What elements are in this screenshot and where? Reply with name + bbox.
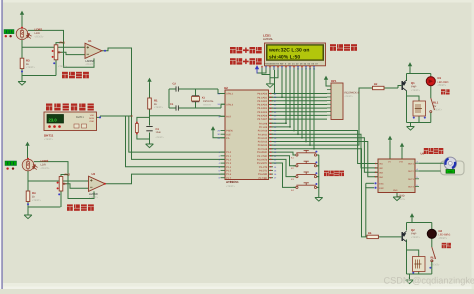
svg-text:23.0: 23.0 xyxy=(49,117,58,122)
wire Q1 collector to relay rail xyxy=(406,91,408,123)
pin P3.2/INT0 xyxy=(269,158,274,160)
ground buttons xyxy=(315,198,323,202)
wire LCD D0 vertical to P2.0 xyxy=(285,70,287,123)
svg-text:P3.2/INT0: P3.2/INT0 xyxy=(257,159,268,162)
wire LCD VEE to ground node xyxy=(269,70,271,83)
wire driver EN1 tie xyxy=(366,182,374,184)
wire LCD D4 vertical to P2.4 xyxy=(301,70,303,138)
label dorm motor xyxy=(424,148,444,154)
probe indoor light level xyxy=(5,161,17,166)
wire RP1 pin1 to VCC xyxy=(326,81,331,86)
svg-text:P3.1/TXD: P3.1/TXD xyxy=(257,155,267,158)
svg-text:P0.2/AD2: P0.2/AD2 xyxy=(257,100,268,103)
svg-text:P3.6/WR: P3.6/WR xyxy=(258,173,268,176)
svg-text:U3: U3 xyxy=(92,172,96,176)
svg-text:wen:32C L:30 on: wen:32C L:30 on xyxy=(268,48,309,54)
wire R1 to RST node xyxy=(149,109,151,117)
svg-text:LDR2: LDR2 xyxy=(41,159,49,163)
wire MCU P2.7 to Q2 base resistor R5 xyxy=(269,149,367,237)
svg-text:C2: C2 xyxy=(173,83,177,86)
wire D1 to relay switch xyxy=(430,74,432,77)
wire Q2 collector to relay rail xyxy=(406,240,408,275)
svg-text:P3.5/T1: P3.5/T1 xyxy=(259,170,268,173)
relay RL1 xyxy=(413,101,426,116)
wire RV2 aux down branch xyxy=(68,175,94,199)
LCD pins xyxy=(261,66,263,70)
svg-text:<TEXT>: <TEXT> xyxy=(431,263,441,266)
pin P1.4 xyxy=(221,166,226,168)
wire LDR2 top loop to RV2 xyxy=(34,162,68,177)
pin P3.1/TXD xyxy=(269,155,274,157)
wire R3 to ground xyxy=(21,69,23,82)
capacitor C3 xyxy=(146,127,152,131)
svg-text:P2.6/A14: P2.6/A14 xyxy=(258,144,268,147)
wire MCU P0.4 row to RP1 xyxy=(269,107,328,109)
relay RL2 xyxy=(413,257,426,272)
label temperature threshold xyxy=(230,47,262,53)
wire MCU P3.1 to button K2 xyxy=(269,156,296,166)
svg-text:LM016L: LM016L xyxy=(263,37,274,41)
power +5V indoor xyxy=(25,142,29,150)
pin P0.5/AD5 xyxy=(269,111,274,113)
svg-text:LDR1: LDR1 xyxy=(35,28,43,32)
resistor R2 xyxy=(373,86,385,89)
svg-text:EA: EA xyxy=(226,137,230,140)
wire MCU P2 rows to driver IN1 xyxy=(269,131,379,164)
button K4 xyxy=(293,186,296,188)
svg-text:AT89C51: AT89C51 xyxy=(226,180,239,184)
relay RL2 switch blade xyxy=(432,247,436,259)
wire LCD D6 vertical to P2.6 xyxy=(309,70,311,145)
wire MCU P2.0 stub to LCD data xyxy=(269,122,287,124)
wire MCU P2 row to driver IN3 xyxy=(269,138,379,173)
wire MCU P0.0 row to RP1 xyxy=(269,93,328,95)
pin P3.5/T1 xyxy=(269,169,274,171)
power +5V driver VSS xyxy=(400,143,404,151)
motor dorm fan xyxy=(444,157,456,169)
ground lamp xyxy=(406,280,414,284)
pin XTAL1 xyxy=(221,93,226,95)
svg-text:PNP: PNP xyxy=(411,233,417,236)
svg-text:OUT4: OUT4 xyxy=(408,186,415,189)
svg-text:<TEXT>: <TEXT> xyxy=(86,63,96,66)
svg-text:<TEXT>: <TEXT> xyxy=(433,108,443,111)
svg-text:P1.4: P1.4 xyxy=(226,166,231,169)
svg-text:P2.0/A8: P2.0/A8 xyxy=(259,122,268,125)
capacitor C1 xyxy=(176,105,178,110)
svg-text:P3.3/INT1: P3.3/INT1 xyxy=(257,162,268,165)
wire LCD RW to ground node xyxy=(270,70,278,78)
wire MCU P0.6 row to RP1 xyxy=(269,114,328,116)
ground reset xyxy=(146,144,154,148)
resistor pack RP1 xyxy=(324,76,328,84)
pin P1.6 xyxy=(221,173,226,175)
svg-text:XTAL2: XTAL2 xyxy=(226,103,234,106)
wire RST node to C3 xyxy=(149,117,151,125)
pin RST xyxy=(221,115,226,117)
wire LCD E to MCU P0.1 xyxy=(281,70,283,97)
svg-text:<TEXT>: <TEXT> xyxy=(35,36,45,39)
svg-text:R4: R4 xyxy=(32,191,36,195)
wire LCD VSS to ground node xyxy=(262,70,270,75)
pin P2.2/A10 xyxy=(269,130,274,132)
svg-text:CSDN @cqdianzingkeji: CSDN @cqdianzingkeji xyxy=(384,276,474,286)
svg-text:P1.0: P1.0 xyxy=(226,151,231,154)
wire MCU P0.3 row to RP1 xyxy=(269,104,328,106)
label adjust keys xyxy=(324,171,344,177)
wire MCU P0.2 row to RP1 xyxy=(269,100,328,102)
resistor R5 xyxy=(367,235,379,238)
svg-text:P0.3/AD3: P0.3/AD3 xyxy=(257,104,268,107)
svg-text:P1.1: P1.1 xyxy=(226,155,231,158)
wire RV1 wiper to op-amp U1 -input xyxy=(58,52,85,54)
wire buttons common to ground xyxy=(317,154,319,156)
svg-text:R5: R5 xyxy=(368,232,372,235)
svg-text:Q2: Q2 xyxy=(411,228,415,232)
wire MCU P0.1 row to RP1 xyxy=(269,96,328,98)
resistor R3 xyxy=(20,58,24,68)
button K1 xyxy=(293,154,296,156)
LED D2 xyxy=(427,229,436,238)
wire Q1 emitter xyxy=(406,79,408,81)
pin P2.1/A9 xyxy=(269,126,274,128)
wire divider node to op-amp U1 +input xyxy=(22,46,85,48)
transistor Q2 xyxy=(401,232,403,241)
svg-text:<TEXT>: <TEXT> xyxy=(226,185,236,188)
wire driver U4 VCC stubs xyxy=(389,141,391,159)
wire indoor VCC to LDR2 xyxy=(27,147,29,159)
svg-text:<TEXT>: <TEXT> xyxy=(439,237,448,240)
svg-text:ALE: ALE xyxy=(226,133,231,136)
ground driver xyxy=(393,197,401,201)
pin PSEN xyxy=(221,130,226,132)
wire op-amp U3 output to MCU P1.6 xyxy=(102,174,225,184)
wire LDR1 to R3 xyxy=(21,40,23,59)
svg-text:P1.7: P1.7 xyxy=(226,177,231,180)
wire MCU P3.3 to button K4 xyxy=(269,163,296,187)
probe outdoor light level xyxy=(4,30,14,34)
wire outdoor VCC to LDR1 xyxy=(21,16,23,28)
op-amp U1 xyxy=(85,43,102,58)
pin P3.0/RXD xyxy=(269,151,274,153)
motor body loop xyxy=(441,161,465,175)
potentiometer RV2 xyxy=(59,177,63,192)
LDR LDR1 xyxy=(16,28,28,40)
capacitor C2 xyxy=(176,86,178,91)
potentiometer RV1 xyxy=(54,45,58,60)
pin P3.6/WR xyxy=(269,173,274,175)
wire MCU P0.5 row to RP1 xyxy=(269,111,328,113)
pin P1.1 xyxy=(221,155,226,157)
svg-text:<TEXT>: <TEXT> xyxy=(438,84,447,87)
svg-text:U2: U2 xyxy=(224,86,228,90)
resistor R4 xyxy=(26,191,30,202)
svg-text:GND: GND xyxy=(90,120,95,123)
svg-text:PSEN: PSEN xyxy=(226,130,233,133)
svg-text:<TEXT>: <TEXT> xyxy=(154,106,164,109)
wire RV2 bottom to ground rail xyxy=(60,191,62,207)
wire driver OUT2 to motor return xyxy=(419,170,441,172)
svg-text:P0.0/AD0: P0.0/AD0 xyxy=(257,93,268,96)
svg-text:X1: X1 xyxy=(202,97,206,100)
svg-text:RL2: RL2 xyxy=(431,255,437,259)
ground air-con xyxy=(407,127,415,131)
pin P1.0 xyxy=(221,151,226,153)
svg-text:GND: GND xyxy=(393,189,398,192)
wire RL1 coil taps xyxy=(407,96,420,101)
pin P0.2/AD2 xyxy=(269,100,274,102)
wire LCD RS to MCU P0.0 xyxy=(274,70,276,94)
svg-text:CRYSTAL: CRYSTAL xyxy=(203,100,214,103)
svg-text:PNP: PNP xyxy=(411,86,417,89)
svg-text:OUT1: OUT1 xyxy=(408,162,415,165)
button K3 xyxy=(293,176,296,178)
wire RV2 wiper to op-amp U3 -input xyxy=(63,184,89,189)
wire XTAL2 line xyxy=(169,107,176,109)
svg-text:C1: C1 xyxy=(170,103,174,106)
svg-text:RESPACK-8: RESPACK-8 xyxy=(345,92,360,95)
svg-text:VSS: VSS xyxy=(399,161,404,164)
svg-text:RST: RST xyxy=(226,115,231,118)
wire LCD D1 vertical to P2.1 xyxy=(289,70,291,127)
svg-text:P2.5/A13: P2.5/A13 xyxy=(258,141,268,144)
resistor R1 xyxy=(148,98,152,109)
pin P3.3/INT1 xyxy=(269,162,274,164)
wire MCU P2 row to Q1 base resistor R2 xyxy=(269,88,373,145)
wire LCD D2 vertical to P2.2 xyxy=(293,70,295,131)
wire air-con ground rail xyxy=(407,122,431,124)
svg-text:<TEXT>: <TEXT> xyxy=(89,196,99,199)
wire RL2 coil taps xyxy=(407,250,419,257)
op-amp U3 xyxy=(89,176,106,191)
wire MCU P2 row to driver IN2 xyxy=(269,134,379,168)
svg-text:P0.7/AD7: P0.7/AD7 xyxy=(257,118,268,121)
wire DHT11 data line xyxy=(100,115,132,117)
wire op-amp U1 output to MCU P1.2 xyxy=(102,48,225,159)
svg-text:P0.5/AD5: P0.5/AD5 xyxy=(257,111,268,114)
wire indoor divider node to op-amp U3 +input xyxy=(28,180,89,182)
wire driver EN2 tie xyxy=(366,188,374,237)
pin P0.1/AD1 xyxy=(269,96,274,98)
pin P0.6/AD6 xyxy=(269,114,274,116)
wire MCU P3.2 to button K3 xyxy=(269,159,296,176)
wire LCD D7 vertical to P2.7 xyxy=(313,70,315,149)
svg-text:+88: +88 xyxy=(448,171,453,174)
svg-text:P1.6: P1.6 xyxy=(226,173,231,176)
wire crystal X1 stubs xyxy=(195,89,197,96)
svg-text:R1: R1 xyxy=(154,98,158,102)
power +5V air-con xyxy=(408,62,412,70)
svg-text:<TEXT>: <TEXT> xyxy=(44,138,54,141)
power +5V driver VS xyxy=(388,136,392,144)
svg-text:R2: R2 xyxy=(374,83,378,86)
svg-text:D2: D2 xyxy=(439,229,443,233)
svg-text:RL1: RL1 xyxy=(433,100,439,104)
svg-text:P0.6/AD6: P0.6/AD6 xyxy=(257,115,268,118)
label outdoor light xyxy=(62,72,89,79)
label temp humidity sensor xyxy=(46,104,94,111)
svg-text:P1.5: P1.5 xyxy=(226,170,231,173)
svg-text:VDD: VDD xyxy=(90,114,95,117)
wire driver OUT1 to motor xyxy=(419,162,445,164)
ground LCD xyxy=(266,84,274,88)
power +5V lamp xyxy=(410,213,414,221)
svg-text:P3.4/T0: P3.4/T0 xyxy=(259,166,268,169)
svg-text:P0.1/AD1: P0.1/AD1 xyxy=(257,96,268,99)
wire reset VCC to R1 xyxy=(149,83,151,98)
wire node to MCU P1.4 xyxy=(126,116,226,167)
wire XTAL1 line xyxy=(169,88,176,90)
pin ALE xyxy=(221,133,226,135)
svg-text:<TEXT>: <TEXT> xyxy=(411,89,421,92)
wire LDR2 to R4 xyxy=(27,171,29,191)
wire EA pin tie-high xyxy=(213,132,225,138)
wire C3 to ground xyxy=(149,133,151,144)
svg-text:DHT11: DHT11 xyxy=(44,134,54,138)
svg-text:<TEXT>: <TEXT> xyxy=(203,103,212,106)
power EA tie xyxy=(211,126,215,134)
pin P2.3/A11 xyxy=(269,133,274,135)
pin P1.5 xyxy=(221,169,226,171)
pin XTAL2 xyxy=(221,103,226,105)
pin P0.4/AD4 xyxy=(269,107,274,109)
label lamp xyxy=(442,243,451,248)
wire driver U4 ground stub xyxy=(396,193,398,198)
pin P2.7/A15 xyxy=(269,148,274,150)
svg-text:R3: R3 xyxy=(26,58,30,62)
crystal X1 xyxy=(192,96,199,102)
svg-text:10uF: 10uF xyxy=(156,131,162,134)
svg-text:P0.4/AD4: P0.4/AD4 xyxy=(257,107,268,110)
wire RV1 aux down branch xyxy=(64,43,95,68)
svg-text:P2.3/A11: P2.3/A11 xyxy=(258,133,268,136)
wire LCD D3 vertical to P2.3 xyxy=(297,70,299,134)
resistor R2 reset pull-down xyxy=(136,122,138,124)
label indoor light xyxy=(67,204,94,210)
button K2 xyxy=(293,165,296,167)
LDR LDR2 xyxy=(22,159,34,171)
svg-text:P2.4/A12: P2.4/A12 xyxy=(258,137,268,140)
wire LCD D5 vertical to P2.5 xyxy=(305,70,307,142)
wire lamp VCC rail xyxy=(411,218,413,223)
wire RV1 bottom to ground rail xyxy=(55,60,57,76)
pin P1.7 xyxy=(221,177,226,179)
pin P3.7/RD xyxy=(269,177,274,179)
svg-text:<TEXT>: <TEXT> xyxy=(41,167,51,170)
LED D1 xyxy=(426,77,435,86)
ground outdoor xyxy=(18,82,26,86)
svg-text:D1: D1 xyxy=(438,76,442,80)
svg-text:P1.2: P1.2 xyxy=(226,159,231,162)
pin P2.6/A14 xyxy=(269,144,274,146)
svg-text:<TEXT>: <TEXT> xyxy=(26,66,36,69)
wire lamp ground rail xyxy=(407,273,432,275)
wire LCD VDD to +5V arrow xyxy=(257,70,266,73)
wire LDR1 top loop to RV1 xyxy=(28,30,64,44)
svg-text:RW: RW xyxy=(280,63,283,66)
svg-text:U1: U1 xyxy=(88,39,92,43)
svg-text:P3.7/RD: P3.7/RD xyxy=(259,177,268,180)
svg-text:DHT11: DHT11 xyxy=(76,116,84,119)
wire reset loop R2 branch xyxy=(137,117,150,139)
label air conditioner xyxy=(441,89,450,94)
label dorm status xyxy=(330,44,357,51)
svg-text:XTAL1: XTAL1 xyxy=(226,93,234,96)
pin P0.7/AD7 xyxy=(269,118,274,120)
wire RST node to MCU RST xyxy=(150,115,226,118)
pin P0.3/AD3 xyxy=(269,104,274,106)
wire DHT tap to MCU P1.0 xyxy=(129,116,225,152)
power +5V reset xyxy=(147,78,151,86)
power +5V outdoor xyxy=(20,11,24,19)
wire air-con VCC rail xyxy=(409,68,411,74)
label humidity threshold xyxy=(230,58,262,64)
svg-text:P2.1/A9: P2.1/A9 xyxy=(259,126,268,129)
relay RL1 switch blade xyxy=(431,98,435,110)
pin P2.5/A13 xyxy=(269,141,274,143)
pin P1.2 xyxy=(221,158,226,160)
svg-text:<TEXT>: <TEXT> xyxy=(411,236,421,239)
pin EA xyxy=(221,137,226,139)
power +5V LCD VDD xyxy=(255,65,259,73)
svg-text:Q1: Q1 xyxy=(411,81,415,85)
wire MCU P0.7 row to RP1 xyxy=(269,118,328,120)
svg-text:shi:40% L:50: shi:40% L:50 xyxy=(269,55,300,61)
svg-text:OUT2: OUT2 xyxy=(408,170,415,173)
transistor Q1 xyxy=(401,81,403,90)
ground indoor xyxy=(24,215,32,219)
svg-text:DATA: DATA xyxy=(89,117,95,120)
svg-text:LED-RED: LED-RED xyxy=(438,81,449,84)
pin P1.3 xyxy=(221,162,226,164)
svg-text:P2.2/A10: P2.2/A10 xyxy=(258,130,268,133)
wire MCU P2 row to driver IN4 xyxy=(269,142,379,177)
svg-text:<TEXT>: <TEXT> xyxy=(58,65,68,68)
svg-text:P1.3: P1.3 xyxy=(226,162,231,165)
svg-text:OUT3: OUT3 xyxy=(408,178,415,181)
svg-text:RV1: RV1 xyxy=(60,40,66,44)
wire MCU P3.0 to button K1 xyxy=(269,152,296,155)
pin P2.0/A8 xyxy=(269,122,274,124)
sensor DHT11 xyxy=(44,112,97,131)
svg-text:P2.7/A15: P2.7/A15 xyxy=(258,148,268,151)
svg-text:<TEXT>: <TEXT> xyxy=(156,136,165,139)
wire R4 to ground xyxy=(27,202,29,216)
wire D2 to relay switch xyxy=(431,223,433,230)
pin P0.0/AD0 xyxy=(269,93,274,95)
wire crystal tie xyxy=(168,89,170,108)
svg-text:LED-BIRG: LED-BIRG xyxy=(439,233,451,236)
pin P2.4/A12 xyxy=(269,137,274,139)
wire MCU P2.1 stub to LCD data xyxy=(269,126,291,128)
svg-text:<TEXT>: <TEXT> xyxy=(345,95,354,98)
pin P3.4/T0 xyxy=(269,166,274,168)
wire outdoor ground rail xyxy=(22,75,56,77)
wire indoor ground rail xyxy=(28,206,60,208)
svg-text:<TEXT>: <TEXT> xyxy=(32,199,42,202)
svg-text:P3.0/RXD: P3.0/RXD xyxy=(257,151,268,154)
svg-text:RV2: RV2 xyxy=(65,172,71,176)
